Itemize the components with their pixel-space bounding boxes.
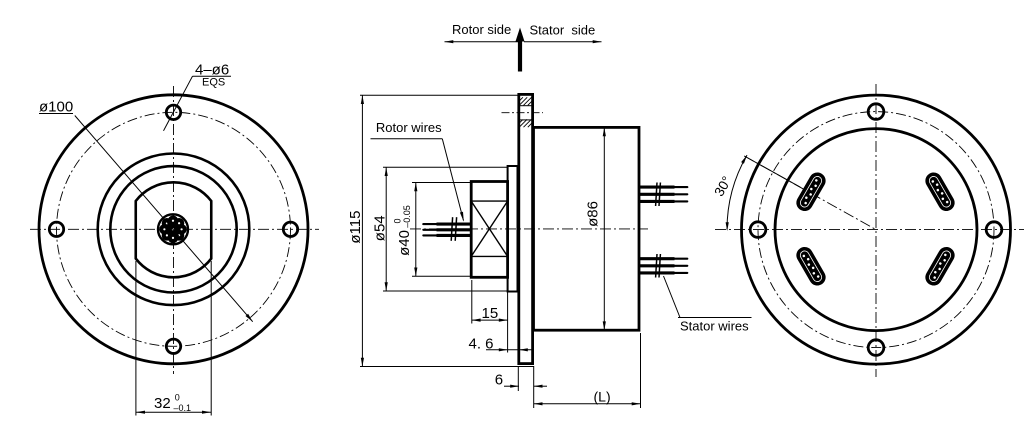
svg-text:0: 0 [175, 392, 180, 402]
rotor wire binding ticks [451, 217, 452, 241]
bolt hole right right-view [986, 222, 1002, 238]
dim ø40 0/-0.05 [412, 182, 471, 184]
bolt hole bottom right-view [868, 340, 884, 356]
bolt hole top [166, 105, 180, 119]
dim 6 [517, 366, 519, 391]
dim (L) [640, 333, 642, 408]
svg-text:–0.1: –0.1 [174, 403, 192, 413]
wire bundle outer circle [158, 214, 188, 244]
bolt circle ø100 (dash-dot) [57, 112, 291, 346]
rotor wires [423, 224, 471, 235]
connector slot lower-right [922, 244, 957, 289]
outer circle right view [742, 95, 1011, 364]
dim 4.6 [486, 349, 533, 351]
centerline middle view [410, 228, 648, 230]
centerline horizontal right view [715, 229, 1024, 231]
svg-text:(L): (L) [594, 388, 611, 404]
30 degree dimension arc [727, 155, 747, 230]
svg-text:ø40: ø40 [396, 230, 413, 256]
flange hatching lower band [519, 119, 533, 127]
svg-text:Rotor side: Rotor side [452, 22, 511, 37]
svg-text:–0.05: –0.05 [402, 205, 412, 228]
svg-text:4. 6: 4. 6 [469, 335, 494, 352]
inner ring A [98, 154, 250, 306]
svg-text:Rotor wires: Rotor wires [376, 120, 442, 135]
dim 15 [471, 280, 473, 324]
dim ø54 [383, 166, 508, 168]
dimension 32 0/-0.1 [135, 261, 137, 416]
svg-text:Stator side: Stator side [530, 23, 596, 38]
flange hatching upper band [519, 97, 533, 105]
bolt hole right [283, 222, 297, 236]
outer flange circle ø115 [39, 95, 308, 364]
ø54 disc [508, 166, 518, 292]
flange bolt hole section lines [519, 105, 533, 107]
bolt hole left right-view [750, 222, 766, 238]
ø40 rotor box [471, 182, 507, 278]
svg-text:15: 15 [482, 305, 499, 322]
30 degree reference line [744, 156, 876, 230]
flange bolt hole centerline [502, 112, 544, 114]
shaft obround ø40 with 32 flats [136, 182, 212, 277]
svg-text:ø86: ø86 [585, 201, 602, 227]
inner circle ø86 right view [775, 129, 977, 331]
wire bundle strands [159, 216, 187, 244]
dim ø115 [360, 94, 519, 96]
ø100 diagonal dimension line [75, 116, 253, 322]
inner ring B ø54 [110, 166, 236, 292]
svg-text:EQS: EQS [202, 76, 225, 88]
connector slot upper-right [922, 169, 957, 214]
label Stator wires with leader [664, 276, 681, 318]
centerline vertical left view [173, 86, 175, 374]
stator wires lower group [639, 254, 687, 278]
svg-text:ø100: ø100 [39, 98, 73, 115]
centerline horizontal left view [30, 228, 319, 230]
centerline vertical right view [875, 84, 877, 377]
dim ø86 [603, 127, 605, 330]
svg-text:ø54: ø54 [372, 215, 389, 241]
thick up arrow [518, 40, 522, 72]
rotor box X cross [471, 201, 507, 256]
bolt hole top right-view [868, 104, 884, 120]
bolt hole left [49, 222, 63, 236]
rotor box inner lines [471, 200, 507, 202]
bolt circle right view [758, 112, 994, 348]
stator body ø86 rectangle [534, 127, 640, 330]
svg-text:6: 6 [495, 372, 503, 389]
svg-text:ø115: ø115 [347, 211, 364, 244]
flange plate [519, 94, 533, 363]
svg-text:32: 32 [154, 395, 171, 412]
connector slot upper-left [793, 169, 828, 214]
bolt hole bottom [166, 339, 180, 353]
svg-text:Stator wires: Stator wires [680, 319, 749, 334]
connector slot lower-left [793, 244, 828, 289]
stator wires upper group [639, 183, 687, 207]
